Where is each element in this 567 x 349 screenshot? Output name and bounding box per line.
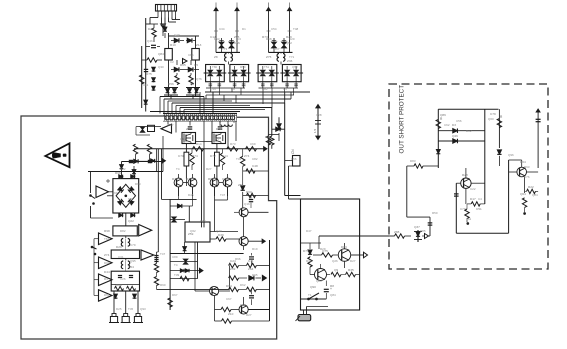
- svg-text:Q84: Q84: [532, 193, 538, 197]
- svg-text:C20: C20: [174, 33, 180, 37]
- svg-text:D61: D61: [104, 293, 110, 297]
- svg-text:Z75: Z75: [266, 55, 272, 59]
- svg-text:D1: D1: [242, 27, 246, 31]
- svg-text:R27: R27: [246, 313, 252, 317]
- svg-text:C69: C69: [112, 191, 118, 195]
- svg-text:T51: T51: [264, 65, 270, 69]
- svg-text:R28: R28: [462, 173, 468, 177]
- svg-text:C79: C79: [460, 207, 466, 211]
- svg-text:D12: D12: [466, 129, 472, 133]
- svg-text:R73: R73: [186, 177, 192, 181]
- svg-text:D44: D44: [104, 270, 110, 274]
- svg-text:Q64: Q64: [520, 192, 526, 196]
- svg-text:Q96: Q96: [508, 153, 514, 157]
- svg-text:D83: D83: [410, 159, 416, 163]
- svg-text:Q62: Q62: [190, 229, 196, 233]
- svg-text:D25: D25: [116, 307, 122, 311]
- svg-text:R74: R74: [192, 154, 198, 158]
- svg-text:C5: C5: [194, 63, 198, 67]
- svg-text:D20: D20: [148, 27, 154, 31]
- svg-text:C56: C56: [234, 41, 240, 45]
- svg-text:Z64: Z64: [248, 267, 254, 271]
- svg-text:Q7: Q7: [208, 72, 212, 76]
- svg-text:C22: C22: [470, 187, 476, 191]
- svg-text:Q9: Q9: [334, 268, 338, 272]
- svg-text:D95: D95: [252, 273, 258, 277]
- svg-text:Q52: Q52: [292, 65, 298, 69]
- svg-text:D94: D94: [226, 284, 232, 288]
- svg-text:C89: C89: [172, 255, 178, 259]
- svg-text:Q8: Q8: [231, 87, 235, 91]
- svg-text:T47: T47: [160, 252, 166, 256]
- svg-text:T65: T65: [128, 197, 134, 201]
- svg-text:D3: D3: [452, 123, 456, 127]
- svg-text:T73: T73: [222, 47, 228, 51]
- svg-text:T71: T71: [289, 55, 295, 59]
- svg-text:D17: D17: [470, 197, 476, 201]
- svg-text:C31: C31: [118, 255, 124, 259]
- svg-text:R50: R50: [432, 211, 438, 215]
- svg-text:Q76: Q76: [196, 77, 202, 81]
- svg-text:R63: R63: [200, 219, 206, 223]
- svg-text:Q46: Q46: [452, 134, 458, 138]
- svg-text:Q84: Q84: [330, 293, 336, 297]
- svg-text:T1: T1: [308, 293, 312, 297]
- svg-text:D20: D20: [289, 37, 295, 41]
- svg-text:Q95: Q95: [130, 259, 136, 263]
- svg-text:Q14: Q14: [210, 87, 216, 91]
- svg-text:Q84: Q84: [158, 52, 164, 56]
- svg-text:R93: R93: [524, 165, 530, 169]
- svg-text:Q52: Q52: [286, 41, 292, 45]
- svg-text:Z88: Z88: [394, 230, 400, 234]
- svg-text:R90: R90: [160, 283, 166, 287]
- svg-text:R22: R22: [528, 185, 534, 189]
- svg-text:Q26: Q26: [332, 259, 338, 263]
- svg-text:R30: R30: [306, 259, 312, 263]
- svg-text:R86: R86: [116, 283, 122, 287]
- svg-text:Z10: Z10: [228, 312, 234, 316]
- svg-text:C11: C11: [143, 83, 149, 87]
- svg-text:R10: R10: [170, 43, 176, 47]
- svg-text:D75: D75: [146, 72, 152, 76]
- svg-text:T48: T48: [293, 27, 299, 31]
- svg-text:R59: R59: [240, 65, 246, 69]
- svg-text:R47: R47: [265, 135, 271, 139]
- svg-text:Q40: Q40: [216, 229, 222, 233]
- svg-text:D22: D22: [120, 167, 126, 171]
- svg-text:D67: D67: [172, 293, 178, 297]
- svg-text:Z74: Z74: [244, 154, 250, 158]
- svg-text:CN: CN: [291, 149, 295, 154]
- svg-text:C3: C3: [237, 37, 241, 41]
- svg-text:D72: D72: [210, 154, 216, 158]
- svg-text:T4: T4: [174, 263, 178, 267]
- svg-text:Z13: Z13: [196, 43, 202, 47]
- svg-text:Q22: Q22: [128, 219, 134, 223]
- svg-text:D60: D60: [246, 190, 252, 194]
- svg-text:C4: C4: [478, 197, 482, 201]
- svg-text:R93: R93: [214, 37, 220, 41]
- svg-text:C56: C56: [291, 157, 297, 161]
- svg-text:C67: C67: [226, 297, 232, 301]
- svg-text:T45: T45: [128, 307, 134, 311]
- svg-text:D77: D77: [303, 249, 309, 253]
- svg-text:R19: R19: [252, 247, 258, 251]
- svg-text:D27: D27: [350, 259, 356, 263]
- svg-text:T49: T49: [236, 157, 242, 161]
- svg-text:R66: R66: [115, 171, 121, 175]
- svg-text:Z36: Z36: [287, 59, 293, 63]
- svg-text:C56: C56: [456, 119, 462, 123]
- svg-text:D45: D45: [188, 193, 194, 197]
- svg-text:C9: C9: [283, 87, 287, 91]
- svg-text:D17: D17: [274, 47, 280, 51]
- svg-text:D47: D47: [306, 229, 312, 233]
- svg-text:C76: C76: [524, 175, 530, 179]
- svg-text:R35: R35: [348, 268, 354, 272]
- svg-text:Z8: Z8: [214, 55, 218, 59]
- svg-text:T39: T39: [174, 273, 180, 277]
- svg-text:C70: C70: [178, 154, 184, 158]
- svg-text:Q9: Q9: [190, 82, 194, 86]
- svg-text:C51: C51: [476, 207, 482, 211]
- svg-text:R80: R80: [208, 177, 214, 181]
- svg-text:C82: C82: [252, 157, 258, 161]
- svg-text:R4: R4: [104, 277, 108, 281]
- svg-text:T64: T64: [104, 237, 110, 241]
- svg-text:R71: R71: [172, 177, 178, 181]
- svg-text:C6: C6: [260, 72, 264, 76]
- svg-text:C57: C57: [168, 123, 174, 127]
- svg-text:R85: R85: [420, 229, 426, 233]
- svg-text:R8: R8: [330, 284, 334, 288]
- svg-text:R27: R27: [206, 167, 212, 171]
- svg-text:R29: R29: [320, 247, 326, 251]
- svg-text:Q90: Q90: [310, 285, 316, 289]
- svg-text:C26: C26: [120, 277, 126, 281]
- svg-text:Z55: Z55: [238, 183, 244, 187]
- svg-text:C69: C69: [250, 142, 256, 146]
- svg-text:D54: D54: [216, 127, 222, 131]
- svg-text:T80: T80: [212, 65, 218, 69]
- svg-text:Q82: Q82: [262, 87, 268, 91]
- svg-text:R98: R98: [104, 229, 110, 233]
- svg-text:D83: D83: [341, 245, 347, 249]
- svg-text:C79: C79: [130, 243, 136, 247]
- svg-text:R73: R73: [230, 142, 236, 146]
- svg-text:Z18: Z18: [186, 127, 192, 131]
- svg-text:C2: C2: [170, 60, 174, 64]
- svg-text:Q80: Q80: [316, 279, 322, 283]
- svg-text:C85: C85: [188, 53, 194, 57]
- svg-text:R64: R64: [520, 160, 526, 164]
- svg-text:OUT SHORT PROTECT: OUT SHORT PROTECT: [399, 85, 406, 154]
- svg-text:C34: C34: [219, 27, 225, 31]
- svg-text:R56: R56: [168, 82, 174, 86]
- svg-text:T36: T36: [160, 23, 166, 27]
- svg-text:D39: D39: [218, 233, 224, 237]
- svg-text:Q46: Q46: [147, 39, 153, 43]
- svg-text:Z39: Z39: [230, 267, 236, 271]
- svg-text:D94: D94: [104, 261, 110, 265]
- svg-text:C11: C11: [248, 259, 254, 263]
- svg-text:C15: C15: [180, 137, 186, 141]
- svg-text:D77: D77: [214, 137, 220, 141]
- svg-text:C64: C64: [222, 177, 228, 181]
- svg-text:T47: T47: [220, 193, 226, 197]
- svg-text:D20: D20: [116, 245, 122, 249]
- svg-text:Q93: Q93: [140, 307, 146, 311]
- svg-text:T61: T61: [466, 217, 472, 221]
- svg-text:D82: D82: [120, 229, 126, 233]
- svg-text:C62: C62: [444, 123, 450, 127]
- svg-text:R65: R65: [180, 63, 186, 67]
- svg-text:D62: D62: [240, 283, 246, 287]
- svg-text:1.5: 1.5: [313, 128, 317, 133]
- svg-text:C48: C48: [252, 164, 258, 168]
- svg-text:R14: R14: [196, 142, 202, 146]
- svg-text:C54: C54: [271, 27, 277, 31]
- svg-text:Q37: Q37: [240, 303, 246, 307]
- svg-text:R68: R68: [266, 37, 272, 41]
- svg-text:Q60: Q60: [488, 117, 494, 121]
- svg-text:Q54: Q54: [128, 265, 134, 269]
- svg-text:C28: C28: [316, 113, 322, 117]
- svg-text:C14: C14: [222, 154, 228, 158]
- svg-text:D99: D99: [135, 182, 141, 186]
- svg-text:R96: R96: [235, 257, 241, 261]
- svg-text:T4: T4: [176, 167, 180, 171]
- svg-text:Q16: Q16: [244, 202, 250, 206]
- svg-text:Q86: Q86: [440, 113, 446, 117]
- svg-text:Q30: Q30: [158, 65, 164, 69]
- svg-text:C79: C79: [490, 112, 496, 116]
- svg-text:Z74: Z74: [104, 253, 110, 257]
